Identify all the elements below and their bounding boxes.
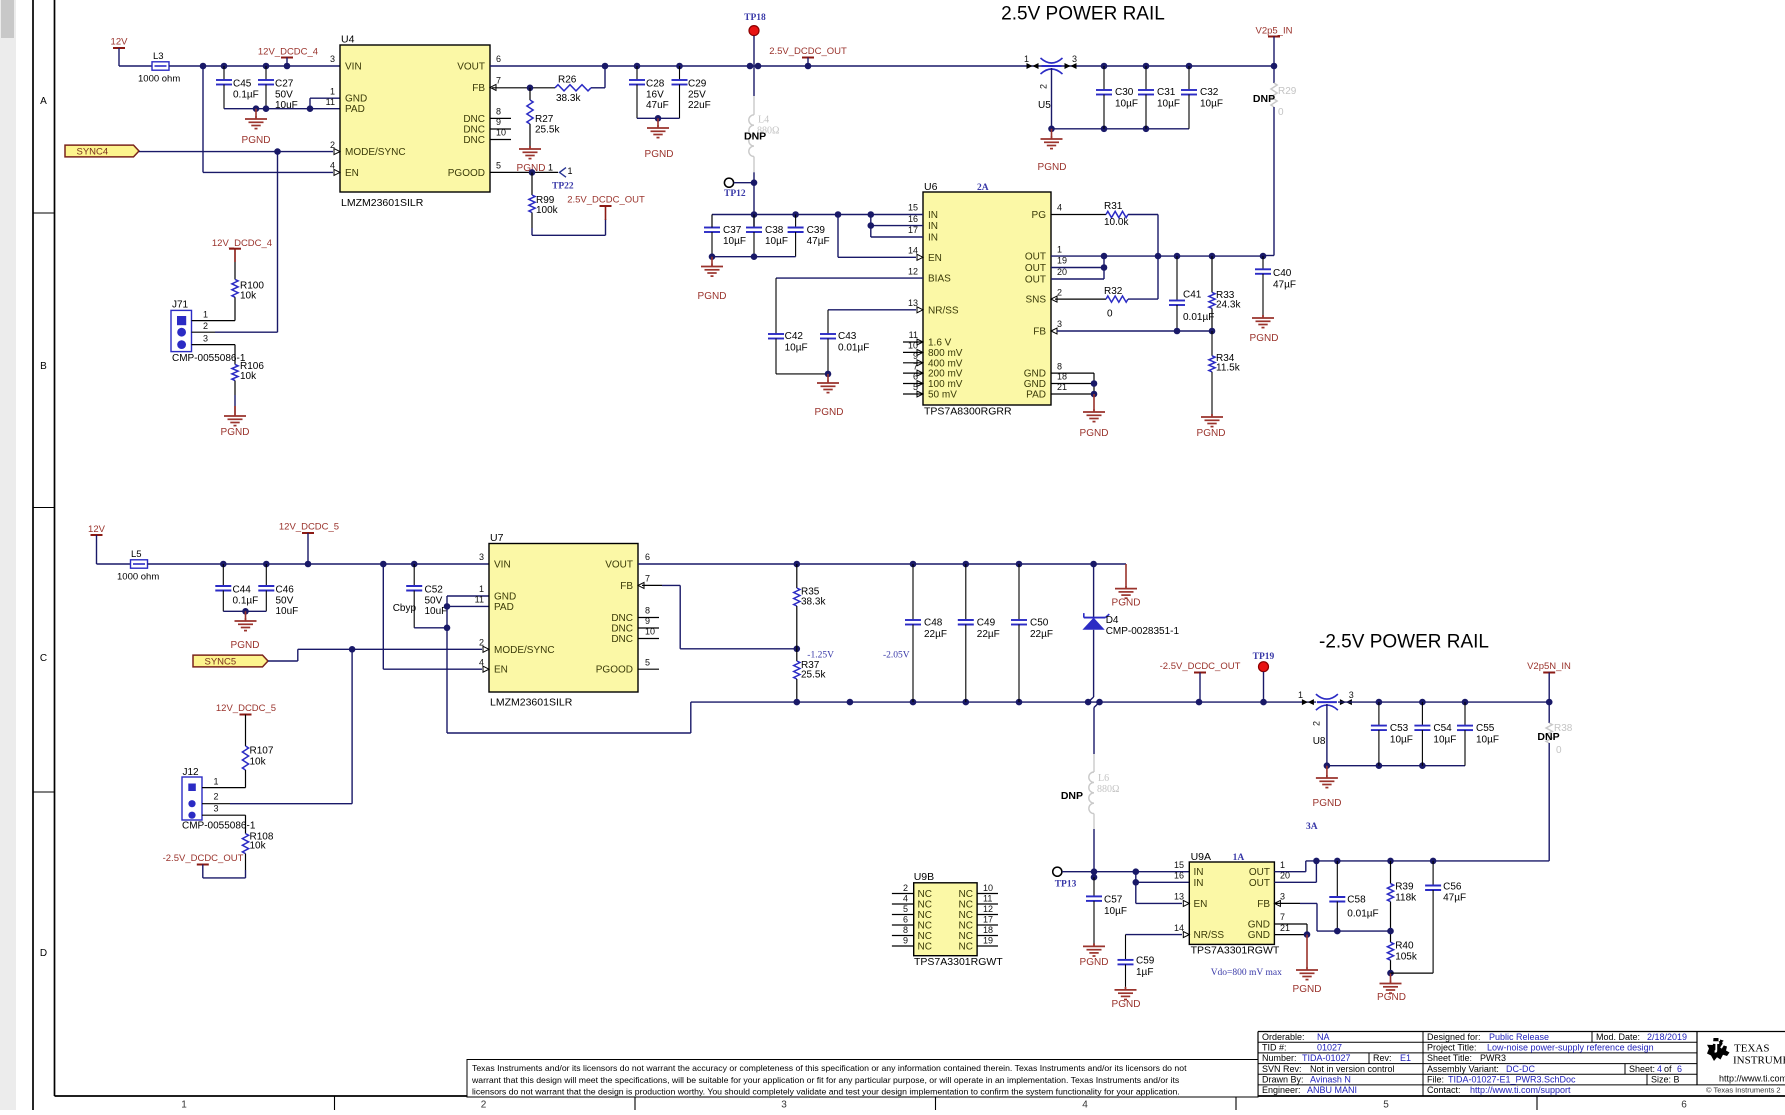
svg-text:PGND: PGND (645, 149, 674, 160)
svg-text:47µF: 47µF (1443, 893, 1466, 904)
svg-text:Drawn By:: Drawn By: (1262, 1075, 1304, 1085)
svg-text:IN: IN (1194, 867, 1204, 878)
svg-text:Sheet Title:: Sheet Title: (1427, 1053, 1472, 1063)
svg-text:0: 0 (1556, 745, 1562, 756)
svg-text:C57: C57 (1104, 895, 1123, 906)
svg-text:PGND: PGND (1197, 428, 1226, 439)
svg-text:GND: GND (494, 592, 516, 603)
svg-text:IN: IN (928, 221, 938, 232)
svg-text:C28: C28 (646, 79, 665, 90)
svg-text:22µF: 22µF (977, 629, 1000, 640)
svg-text:PGND: PGND (1112, 999, 1141, 1010)
svg-text:R40: R40 (1395, 941, 1414, 952)
svg-text:DNC: DNC (611, 613, 633, 624)
svg-text:NC: NC (918, 889, 932, 900)
svg-text:10µF: 10µF (765, 236, 788, 247)
svg-text:IN: IN (1194, 878, 1204, 889)
svg-text:PAD: PAD (345, 104, 365, 115)
svg-text:50V: 50V (425, 596, 443, 607)
svg-text:C54: C54 (1433, 723, 1452, 734)
svg-text:TP19: TP19 (1253, 652, 1275, 662)
svg-text:NR/SS: NR/SS (928, 305, 959, 316)
svg-text:12V_DCDC_4: 12V_DCDC_4 (258, 47, 318, 58)
svg-text:11: 11 (326, 97, 335, 107)
svg-text:6: 6 (903, 915, 908, 925)
svg-text:1: 1 (203, 310, 208, 320)
svg-text:LMZM23601SILR: LMZM23601SILR (490, 697, 573, 709)
svg-text:6: 6 (645, 552, 650, 562)
svg-text:16: 16 (908, 214, 918, 224)
svg-text:18: 18 (983, 925, 993, 935)
svg-text:7: 7 (496, 76, 501, 86)
svg-text:13: 13 (1174, 892, 1184, 902)
svg-text:NC: NC (918, 931, 932, 942)
svg-text:C58: C58 (1347, 895, 1366, 906)
svg-text:of: of (1664, 1064, 1672, 1074)
svg-text:Sheet:: Sheet: (1629, 1064, 1655, 1074)
svg-text:C49: C49 (977, 618, 996, 629)
svg-text:J71: J71 (172, 300, 189, 311)
svg-text:-1.25V: -1.25V (807, 651, 834, 661)
svg-text:7: 7 (1280, 912, 1285, 922)
svg-text:DNC: DNC (611, 624, 633, 635)
svg-text:A: A (40, 96, 47, 107)
svg-text:TIDA-01027: TIDA-01027 (1302, 1053, 1351, 1063)
svg-text:3: 3 (214, 804, 219, 814)
svg-text:PGND: PGND (1038, 162, 1067, 173)
svg-text:TP13: TP13 (1055, 880, 1077, 890)
svg-text:10uF: 10uF (425, 606, 448, 617)
svg-text:SYNC4: SYNC4 (77, 146, 109, 157)
svg-text:OUT: OUT (1249, 878, 1270, 889)
svg-text:PGND: PGND (1080, 428, 1109, 439)
svg-text:12V_DCDC_5: 12V_DCDC_5 (216, 703, 276, 714)
svg-text:R27: R27 (535, 114, 554, 125)
svg-text:PGND: PGND (1313, 798, 1342, 809)
svg-text:Texas Instruments and/or its l: Texas Instruments and/or its licensors d… (472, 1063, 1187, 1073)
svg-text:FB: FB (1033, 327, 1046, 338)
svg-text:2.5V_DCDC_OUT: 2.5V_DCDC_OUT (769, 46, 847, 57)
svg-text:L3: L3 (153, 51, 164, 62)
svg-text:880Ω: 880Ω (1097, 784, 1119, 795)
svg-text:warrant that this design will: warrant that this design will meet the s… (471, 1075, 1180, 1085)
svg-text:6: 6 (1677, 1064, 1682, 1074)
svg-text:C42: C42 (785, 331, 804, 342)
svg-text:-2.5V_DCDC_OUT: -2.5V_DCDC_OUT (1160, 661, 1241, 672)
svg-text:20: 20 (1057, 267, 1067, 277)
svg-text:2: 2 (903, 883, 908, 893)
svg-text:6: 6 (496, 54, 501, 64)
svg-text:C29: C29 (688, 79, 707, 90)
svg-text:C27: C27 (275, 79, 294, 90)
svg-text:2.5V_DCDC_OUT: 2.5V_DCDC_OUT (567, 195, 645, 206)
svg-text:E1: E1 (1400, 1053, 1411, 1063)
svg-text:1: 1 (214, 777, 219, 787)
svg-text:PGND: PGND (242, 135, 271, 146)
svg-text:C38: C38 (765, 225, 784, 236)
svg-text:11: 11 (475, 595, 484, 605)
svg-text:TEXAS: TEXAS (1734, 1043, 1769, 1055)
svg-text:C32: C32 (1200, 87, 1219, 98)
svg-text:NC: NC (959, 889, 973, 900)
svg-text:50 mV: 50 mV (928, 390, 957, 401)
svg-text:NC: NC (918, 910, 932, 921)
svg-text:13: 13 (908, 298, 918, 308)
svg-text:-2.5V POWER RAIL: -2.5V POWER RAIL (1319, 632, 1489, 653)
svg-text:8: 8 (496, 107, 501, 117)
svg-text:3: 3 (781, 1100, 787, 1111)
svg-text:25.5k: 25.5k (535, 125, 560, 136)
svg-text:ANBU MANI: ANBU MANI (1307, 1085, 1357, 1095)
svg-text:4: 4 (1657, 1064, 1662, 1074)
svg-text:U4: U4 (341, 34, 355, 46)
svg-text:19: 19 (1057, 256, 1067, 266)
svg-text:-2.5V_DCDC_OUT: -2.5V_DCDC_OUT (163, 853, 244, 864)
svg-text:01027: 01027 (1317, 1043, 1342, 1053)
svg-text:BIAS: BIAS (928, 274, 951, 285)
svg-text:PGND: PGND (231, 640, 260, 651)
svg-text:DNC: DNC (463, 125, 485, 136)
svg-text:1: 1 (1280, 860, 1285, 870)
svg-text:105k: 105k (1395, 952, 1418, 963)
svg-text:NC: NC (959, 942, 973, 953)
svg-text:1: 1 (548, 163, 553, 173)
svg-text:PGOOD: PGOOD (448, 168, 485, 179)
svg-text:licensors do not warrant that: licensors do not warrant that the design… (472, 1087, 1180, 1097)
svg-text:Assembly Variant:: Assembly Variant: (1427, 1064, 1499, 1074)
svg-text:U9B: U9B (914, 871, 934, 883)
svg-text:3: 3 (330, 54, 335, 64)
svg-text:Size: B: Size: B (1651, 1075, 1680, 1085)
svg-text:R107: R107 (250, 746, 274, 757)
svg-text:R39: R39 (1395, 882, 1414, 893)
svg-text:TP22: TP22 (552, 182, 574, 192)
svg-text:8: 8 (1057, 361, 1062, 371)
svg-text:10µF: 10µF (1200, 99, 1223, 110)
svg-text:OUT: OUT (1025, 263, 1046, 274)
svg-text:CMP-0055086-1: CMP-0055086-1 (182, 821, 256, 832)
svg-text:17: 17 (983, 915, 993, 925)
svg-text:1: 1 (1024, 54, 1029, 64)
svg-text:GND: GND (1024, 369, 1046, 380)
svg-text:2/18/2019: 2/18/2019 (1647, 1032, 1687, 1042)
svg-text:47uF: 47uF (646, 100, 669, 111)
svg-text:R31: R31 (1104, 201, 1123, 212)
svg-text:C53: C53 (1390, 723, 1409, 734)
svg-text:R32: R32 (1104, 286, 1123, 297)
svg-text:5: 5 (645, 657, 650, 667)
svg-text:12V_DCDC_4: 12V_DCDC_4 (212, 238, 272, 249)
svg-text:TIDA-01027-E1_PWR3.SchDoc: TIDA-01027-E1_PWR3.SchDoc (1448, 1075, 1576, 1085)
svg-text:17: 17 (908, 225, 918, 235)
svg-text:0.01µF: 0.01µF (1347, 909, 1378, 920)
svg-text:Designed for:: Designed for: (1427, 1032, 1481, 1042)
svg-text:3: 3 (203, 334, 208, 344)
svg-text:PGND: PGND (815, 407, 844, 418)
svg-text:C43: C43 (838, 331, 857, 342)
svg-text:VIN: VIN (345, 62, 362, 73)
svg-text:U6: U6 (924, 181, 938, 193)
svg-text:5: 5 (496, 161, 501, 171)
svg-text:15: 15 (1174, 860, 1184, 870)
svg-text:118k: 118k (1395, 893, 1417, 904)
svg-text:1: 1 (1057, 244, 1062, 254)
svg-text:10µF: 10µF (1115, 99, 1138, 110)
svg-text:PGND: PGND (221, 427, 250, 438)
svg-text:16V: 16V (646, 90, 664, 101)
svg-text:2: 2 (214, 792, 219, 802)
svg-text:0.01µF: 0.01µF (1183, 312, 1214, 323)
svg-text:TPS7A8300RGRR: TPS7A8300RGRR (924, 406, 1012, 418)
svg-text:PAD: PAD (1026, 390, 1046, 401)
svg-text:Contact:: Contact: (1427, 1085, 1461, 1095)
svg-text:TPS7A3301RGWT: TPS7A3301RGWT (1191, 945, 1280, 957)
svg-text:1: 1 (181, 1100, 187, 1111)
svg-text:PGND: PGND (698, 291, 727, 302)
svg-text:10µF: 10µF (1433, 735, 1456, 746)
svg-text:NA: NA (1317, 1032, 1330, 1042)
svg-text:File:: File: (1427, 1075, 1444, 1085)
svg-text:22µF: 22µF (924, 629, 947, 640)
svg-text:24.3k: 24.3k (1216, 300, 1241, 311)
svg-text:NC: NC (959, 921, 973, 932)
svg-text:R26: R26 (558, 75, 577, 86)
svg-text:2: 2 (1057, 287, 1062, 297)
svg-text:V2p5N_IN: V2p5N_IN (1527, 661, 1571, 672)
svg-text:12V: 12V (88, 524, 106, 535)
svg-text:47µF: 47µF (1273, 280, 1296, 291)
svg-text:10µF: 10µF (1390, 735, 1413, 746)
svg-text:CMP-0028351-1: CMP-0028351-1 (1106, 626, 1180, 637)
svg-text:11: 11 (983, 894, 992, 904)
svg-text:C59: C59 (1136, 956, 1155, 967)
svg-text:NC: NC (918, 942, 932, 953)
svg-text:PGND: PGND (1377, 992, 1406, 1003)
svg-text:PGND: PGND (1250, 333, 1279, 344)
svg-text:3: 3 (1349, 690, 1354, 700)
svg-text:10µF: 10µF (1476, 735, 1499, 746)
svg-text:800 mV: 800 mV (928, 348, 963, 359)
svg-text:D: D (40, 948, 47, 959)
svg-text:DNC: DNC (463, 114, 485, 125)
svg-text:DC-DC: DC-DC (1506, 1064, 1535, 1074)
svg-text:2: 2 (1311, 721, 1321, 726)
svg-text:LMZM23601SILR: LMZM23601SILR (341, 197, 424, 209)
svg-text:GND: GND (345, 94, 367, 105)
svg-text:10: 10 (983, 883, 993, 893)
svg-text:FB: FB (472, 83, 485, 94)
svg-text:Project Title:: Project Title: (1427, 1043, 1477, 1053)
svg-text:Not in version control: Not in version control (1310, 1064, 1395, 1074)
svg-text:15: 15 (908, 203, 918, 213)
svg-text:NC: NC (959, 910, 973, 921)
svg-text:http://www.ti.com/support: http://www.ti.com/support (1470, 1085, 1571, 1095)
svg-text:C39: C39 (807, 225, 826, 236)
svg-text:L4: L4 (758, 115, 769, 126)
svg-text:C30: C30 (1115, 87, 1134, 98)
svg-text:C52: C52 (425, 585, 444, 596)
svg-text:SVN Rev:: SVN Rev: (1262, 1064, 1302, 1074)
svg-text:NC: NC (959, 900, 973, 911)
svg-text:2.5V POWER RAIL: 2.5V POWER RAIL (1001, 4, 1165, 25)
svg-text:NR/SS: NR/SS (1194, 930, 1225, 941)
svg-text:14: 14 (908, 246, 918, 256)
svg-text:200 mV: 200 mV (928, 369, 963, 380)
svg-text:10k: 10k (250, 841, 267, 852)
svg-text:Engineer:: Engineer: (1262, 1085, 1301, 1095)
svg-text:TPS7A3301RGWT: TPS7A3301RGWT (914, 956, 1003, 968)
svg-text:10µF: 10µF (723, 236, 746, 247)
svg-text:16: 16 (1174, 871, 1184, 881)
svg-text:Rev:: Rev: (1373, 1053, 1392, 1063)
svg-text:0.1µF: 0.1µF (233, 596, 259, 607)
svg-text:10µF: 10µF (1104, 906, 1127, 917)
svg-text:4: 4 (1057, 203, 1062, 213)
svg-text:Vdo=800 mV max: Vdo=800 mV max (1211, 968, 1282, 978)
svg-text:12: 12 (908, 266, 918, 276)
svg-text:PG: PG (1032, 210, 1047, 221)
svg-text:INSTRUMENTS: INSTRUMENTS (1733, 1055, 1785, 1067)
svg-text:U8: U8 (1313, 736, 1326, 747)
svg-text:-2.05V: -2.05V (883, 651, 910, 661)
svg-text:Low-noise power-supply referen: Low-noise power-supply reference design (1487, 1043, 1654, 1053)
svg-text:VIN: VIN (494, 560, 511, 571)
svg-text:C46: C46 (276, 585, 295, 596)
svg-text:J12: J12 (183, 767, 200, 778)
svg-text:OUT: OUT (1025, 275, 1046, 286)
svg-text:1: 1 (479, 584, 484, 594)
svg-text:EN: EN (928, 253, 942, 264)
svg-text:1: 1 (330, 86, 335, 96)
svg-text:DNC: DNC (611, 634, 633, 645)
svg-text:EN: EN (1194, 899, 1208, 910)
svg-text:VOUT: VOUT (457, 62, 485, 73)
svg-text:MODE/SYNC: MODE/SYNC (345, 147, 406, 158)
svg-text:SYNC5: SYNC5 (205, 656, 237, 667)
svg-text:C31: C31 (1157, 87, 1176, 98)
svg-text:0: 0 (1107, 309, 1113, 320)
svg-text:10k: 10k (240, 291, 257, 302)
svg-text:PGND: PGND (1080, 957, 1109, 968)
svg-text:100k: 100k (536, 205, 559, 216)
svg-text:http://www.ti.com: http://www.ti.com (1719, 1074, 1785, 1084)
svg-text:Public Release: Public Release (1489, 1032, 1549, 1042)
svg-text:GND: GND (1024, 379, 1046, 390)
svg-text:IN: IN (928, 233, 938, 244)
svg-text:47µF: 47µF (807, 236, 830, 247)
svg-text:4: 4 (1082, 1100, 1088, 1111)
svg-text:C37: C37 (723, 225, 742, 236)
svg-text:FB: FB (620, 581, 633, 592)
svg-text:MODE/SYNC: MODE/SYNC (494, 645, 555, 656)
svg-text:FB: FB (1257, 899, 1270, 910)
svg-text:DNP: DNP (744, 131, 766, 143)
svg-text:NC: NC (918, 921, 932, 932)
svg-text:C40: C40 (1273, 268, 1292, 279)
svg-text:6: 6 (1681, 1100, 1687, 1111)
svg-text:U5: U5 (1038, 100, 1051, 111)
svg-text:C50: C50 (1030, 618, 1049, 629)
svg-text:EN: EN (494, 665, 508, 676)
svg-text:C48: C48 (924, 618, 943, 629)
svg-text:0: 0 (1278, 107, 1284, 118)
svg-text:C44: C44 (233, 585, 252, 596)
svg-text:12: 12 (983, 904, 993, 914)
svg-text:1A: 1A (1233, 853, 1245, 863)
svg-text:1: 1 (1298, 690, 1303, 700)
svg-text:10k: 10k (250, 757, 267, 768)
svg-text:DNP: DNP (1061, 790, 1083, 802)
svg-text:22µF: 22µF (1030, 629, 1053, 640)
svg-text:PGND: PGND (1293, 984, 1322, 995)
svg-text:Cbyp: Cbyp (393, 603, 417, 614)
svg-text:R29: R29 (1278, 86, 1297, 97)
svg-text:38.3k: 38.3k (556, 93, 581, 104)
svg-text:DNP: DNP (1253, 93, 1275, 105)
svg-text:19: 19 (983, 936, 993, 946)
svg-text:© Texas Instruments 2: © Texas Instruments 2 (1706, 1086, 1781, 1095)
svg-text:11.5k: 11.5k (1216, 363, 1241, 374)
svg-text:B: B (40, 361, 47, 372)
svg-text:GND: GND (1248, 920, 1270, 931)
svg-text:C56: C56 (1443, 882, 1462, 893)
svg-text:2: 2 (481, 1100, 487, 1111)
svg-text:EN: EN (345, 168, 359, 179)
svg-text:5: 5 (903, 904, 908, 914)
svg-text:9: 9 (903, 936, 908, 946)
svg-text:U9A: U9A (1191, 851, 1211, 863)
svg-text:10k: 10k (240, 371, 257, 382)
svg-text:38.3k: 38.3k (801, 597, 826, 608)
svg-text:Mod. Date:: Mod. Date: (1596, 1032, 1640, 1042)
svg-text:C45: C45 (233, 79, 252, 90)
svg-text:0.1µF: 0.1µF (233, 90, 259, 101)
svg-text:2A: 2A (977, 183, 989, 193)
svg-text:1: 1 (568, 166, 573, 176)
svg-text:4: 4 (903, 894, 908, 904)
svg-text:NC: NC (918, 900, 932, 911)
svg-text:10µF: 10µF (785, 343, 808, 354)
svg-text:50V: 50V (275, 90, 293, 101)
svg-text:1000 ohm: 1000 ohm (117, 572, 159, 583)
svg-text:TP12: TP12 (724, 189, 746, 199)
svg-text:NC: NC (959, 931, 973, 942)
svg-text:D4: D4 (1106, 615, 1119, 626)
svg-text:TP18: TP18 (744, 13, 766, 23)
svg-text:10uF: 10uF (276, 606, 299, 617)
svg-text:3: 3 (1057, 319, 1062, 329)
svg-text:DNP: DNP (1537, 731, 1559, 743)
svg-text:PGND: PGND (1112, 598, 1141, 609)
svg-text:8: 8 (645, 606, 650, 616)
svg-text:SNS: SNS (1025, 295, 1046, 306)
svg-text:V2p5_IN: V2p5_IN (1256, 26, 1293, 37)
svg-text:22uF: 22uF (688, 100, 711, 111)
svg-text:8: 8 (903, 925, 908, 935)
svg-text:50V: 50V (276, 596, 294, 607)
svg-text:DNC: DNC (463, 135, 485, 146)
svg-text:10µF: 10µF (1157, 99, 1180, 110)
svg-text:100 mV: 100 mV (928, 379, 963, 390)
svg-text:TID #:: TID #: (1262, 1043, 1287, 1053)
svg-text:0.01µF: 0.01µF (838, 343, 869, 354)
svg-text:Avinash N: Avinash N (1310, 1075, 1351, 1085)
svg-text:L6: L6 (1098, 773, 1109, 784)
svg-text:C41: C41 (1183, 290, 1202, 301)
svg-text:2: 2 (203, 321, 208, 331)
svg-text:12V: 12V (111, 37, 129, 48)
svg-text:25V: 25V (688, 90, 706, 101)
